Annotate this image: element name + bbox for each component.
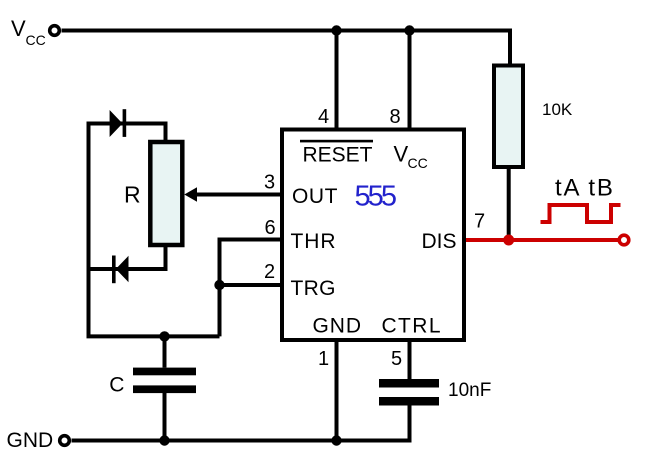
svg-text:C: C [109,374,124,397]
label VCC pin8 inside box [394,141,428,171]
junction dot top rail pin8 [404,25,414,35]
svg-text:4: 4 [318,106,329,128]
diode D2 (cathode left, pointing left) [112,256,129,284]
svg-text:GND: GND [313,315,362,338]
wire OUT pin3 to potentiometer wiper [194,193,282,197]
svg-text:3: 3 [264,172,275,194]
label RESET (overlined) [300,140,373,167]
junction dot cap C bottom node [159,435,169,445]
wire bottom diode branch [89,247,166,269]
wire TRG pin2 [220,283,283,287]
junction dot cap C top node [159,331,169,341]
capacitor 10nF [379,379,439,406]
svg-text:6: 6 [265,217,276,239]
svg-text:OUT: OUT [292,185,338,208]
svg-text:V: V [11,16,26,41]
wire pin8 stub [408,31,412,130]
resistor 10K [494,66,523,168]
wire THR pin6 [220,240,283,337]
svg-text:2: 2 [264,261,275,283]
svg-text:GND: GND [7,429,54,452]
label VCC (top-left) [11,16,46,48]
svg-text:CC: CC [26,32,46,48]
wire GND pin1 stub [335,340,339,441]
svg-text:1: 1 [318,348,329,370]
svg-text:THR: THR [291,230,336,253]
wire bottom rail GND [72,406,410,441]
junction dot top rail pin4 [331,25,341,35]
svg-text:555: 555 [355,181,398,213]
wire resistor bottom to DIS node [507,167,511,240]
junction dot pin1 node [331,435,341,445]
svg-text:10nF: 10nF [448,380,491,401]
wire top rail VCC [62,31,511,64]
junction dot TRG node [214,280,224,290]
svg-text:CC: CC [408,155,428,171]
arrowhead wiper [184,187,197,202]
svg-text:10K: 10K [542,100,573,119]
terminal DIS output (open red circle) [619,235,629,245]
wire CTRL pin5 stub [408,340,412,379]
svg-text:DIS: DIS [422,230,457,253]
terminal GND (open circle) [60,436,70,446]
op IC 555 box U1 [282,130,464,341]
junction dot DIS node (red) [503,235,514,246]
wire left rail [89,122,220,337]
svg-text:R: R [124,182,141,208]
wire DIS pin7 (red) [464,238,620,242]
diode D1 (anode left, pointing right) [110,109,127,137]
potentiometer R [150,142,182,245]
waveform icon (red square wave) [541,205,621,222]
svg-text:8: 8 [390,106,401,128]
wire top diode branch [89,124,166,141]
capacitor C [133,336,196,440]
terminal VCC (open circle) [50,26,60,36]
wire pin4 stub [335,31,339,130]
svg-text:tA tB: tA tB [555,175,615,202]
svg-text:RESET: RESET [303,143,373,166]
svg-text:V: V [394,141,409,166]
svg-text:TRG: TRG [291,277,336,300]
svg-text:7: 7 [474,211,485,233]
svg-text:5: 5 [391,348,402,370]
